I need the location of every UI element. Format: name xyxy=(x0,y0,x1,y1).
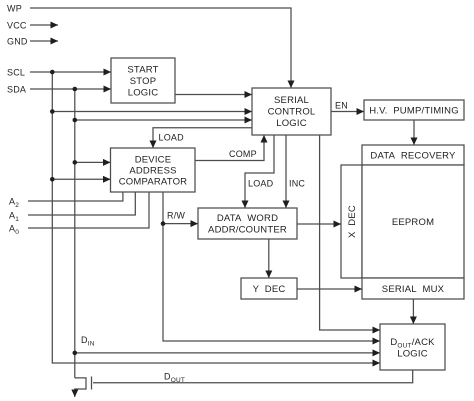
svg-text:VCC: VCC xyxy=(7,21,27,31)
label LOAD lower xyxy=(248,179,274,189)
wire COMP from comparator to serial control logic xyxy=(195,135,264,161)
wire R/W to data word counter xyxy=(163,223,198,225)
wire INC from serial control to data word counter xyxy=(285,135,287,208)
label DIN xyxy=(81,335,95,348)
node SCL label xyxy=(7,68,25,78)
node SDA label xyxy=(7,85,26,95)
wire SDA branch to device address comparator xyxy=(75,161,111,163)
svg-text:STOP: STOP xyxy=(130,76,157,87)
wire SCL branch to serial control logic xyxy=(52,111,252,113)
label COMP xyxy=(229,149,257,159)
svg-text:X DEC: X DEC xyxy=(347,205,358,238)
wire serial control to dout/ack logic xyxy=(320,135,380,330)
junction dot DIN xyxy=(73,351,78,356)
svg-text:LOAD: LOAD xyxy=(248,179,274,189)
block eeprom xyxy=(362,165,464,278)
block start stop logic xyxy=(111,58,175,103)
svg-text:START: START xyxy=(127,64,158,75)
wire serial mux to dout/ack logic xyxy=(412,299,414,324)
wire VCC arrow xyxy=(30,24,58,26)
label INC xyxy=(289,179,305,189)
wire data word counter to y dec xyxy=(268,239,270,278)
svg-text:COMP: COMP xyxy=(229,149,257,159)
wire data word counter to x dec xyxy=(297,223,341,225)
junction dot R/W xyxy=(161,221,166,226)
label A1 xyxy=(9,211,19,224)
svg-text:DATA RECOVERY: DATA RECOVERY xyxy=(370,150,456,161)
svg-text:H.V. PUMP/TIMING: H.V. PUMP/TIMING xyxy=(369,105,459,116)
svg-text:EN: EN xyxy=(335,101,348,111)
junction dot SCL line xyxy=(50,70,55,75)
wire y dec to serial mux xyxy=(297,288,362,290)
wire A1 input xyxy=(28,192,135,215)
block y dec xyxy=(241,278,297,299)
svg-text:INC: INC xyxy=(289,179,305,189)
wire SDA branch to serial control logic xyxy=(75,119,252,121)
block data recovery xyxy=(362,145,464,165)
svg-text:DATA WORD: DATA WORD xyxy=(217,213,278,224)
junction dot SCL comparator branch xyxy=(50,177,55,182)
svg-text:ADDRESS: ADDRESS xyxy=(129,166,176,177)
svg-text:EEPROM: EEPROM xyxy=(392,217,434,228)
label EN xyxy=(335,101,348,111)
wire SCL branch to device address comparator xyxy=(52,178,110,180)
svg-text:GND: GND xyxy=(7,37,28,47)
block dout/ack logic xyxy=(380,324,445,370)
label A0 xyxy=(9,224,19,237)
node VCC label xyxy=(7,21,27,31)
wire start stop logic to serial control logic xyxy=(175,94,252,96)
block hv pump timing xyxy=(364,100,464,120)
svg-text:WP: WP xyxy=(7,4,22,14)
wire DIN from SDA to dout/ack logic xyxy=(75,352,380,354)
block device address comparator xyxy=(111,148,196,192)
wire A0 input xyxy=(28,192,149,228)
block data word addr counter xyxy=(198,208,297,239)
wire WP to serial control logic xyxy=(30,8,291,88)
junction dot SCL branch xyxy=(50,109,55,114)
svg-text:COMPARATOR: COMPARATOR xyxy=(119,177,188,188)
wire hv pump to data recovery xyxy=(413,120,415,145)
label DOUT xyxy=(164,372,185,385)
svg-text:SDA: SDA xyxy=(7,85,26,95)
svg-text:LOAD: LOAD xyxy=(159,133,185,143)
wire LOAD from serial control logic to comparator xyxy=(153,128,252,148)
wire SCL vertical bus xyxy=(52,72,380,363)
label R/W xyxy=(167,211,185,221)
label A2 xyxy=(9,197,19,210)
node GND label xyxy=(7,37,28,47)
svg-text:SERIAL: SERIAL xyxy=(274,95,309,106)
transistor output driver channel xyxy=(75,378,86,397)
block serial control logic xyxy=(252,88,331,135)
junction dot SDA comparator branch xyxy=(73,160,78,165)
wire R/W from comparator down xyxy=(163,192,380,341)
wire A2 input xyxy=(28,192,123,201)
wire GND arrow xyxy=(30,40,58,42)
svg-text:DEVICE: DEVICE xyxy=(135,155,172,166)
svg-text:LOGIC: LOGIC xyxy=(397,348,428,359)
wire EN to hv pump xyxy=(331,111,364,113)
wire LOAD from serial control to data word counter xyxy=(245,135,274,208)
svg-text:Y DEC: Y DEC xyxy=(253,284,286,295)
block serial mux xyxy=(362,278,464,299)
svg-text:CONTROL: CONTROL xyxy=(268,107,316,118)
svg-text:SERIAL MUX: SERIAL MUX xyxy=(382,284,445,295)
svg-text:LOGIC: LOGIC xyxy=(276,118,307,129)
svg-text:R/W: R/W xyxy=(167,211,185,221)
node WP label xyxy=(7,4,22,14)
wire DOUT from dout/ack logic to output transistor gate xyxy=(93,370,413,383)
svg-text:LOGIC: LOGIC xyxy=(128,87,159,98)
svg-text:SCL: SCL xyxy=(7,68,25,78)
transistor gate bar xyxy=(91,377,93,390)
svg-text:ADDR/COUNTER: ADDR/COUNTER xyxy=(208,225,287,236)
wire SDA to start stop logic xyxy=(30,88,111,90)
junction dot SDA branch xyxy=(73,118,78,123)
block x dec xyxy=(341,165,362,278)
wire SDA vertical bus xyxy=(74,89,76,378)
wire SCL to start stop logic xyxy=(30,71,111,73)
junction dot SDA line xyxy=(73,87,78,92)
label LOAD upper xyxy=(159,133,185,143)
